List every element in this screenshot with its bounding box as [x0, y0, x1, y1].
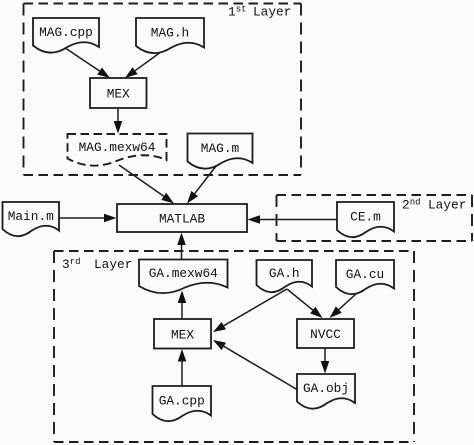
svg-text:GA.cpp: GA.cpp — [159, 394, 205, 409]
svg-text:MATLAB: MATLAB — [159, 212, 205, 227]
svg-text:3rdLayer: 3rdLayer — [62, 257, 132, 272]
document Main.m — [3, 202, 60, 236]
arrow MAG.mexw64 to MATLAB — [119, 165, 174, 204]
svg-text:MAG.mexw64: MAG.mexw64 — [79, 140, 156, 155]
document GA.cu — [336, 260, 394, 294]
svg-text:GA.cu: GA.cu — [346, 267, 384, 282]
process box MEX (layer 1) — [90, 78, 147, 108]
arrow GA.mexw64 to MATLAB — [177, 233, 186, 260]
svg-text:1stLayer: 1stLayer — [228, 5, 291, 20]
svg-text:MAG.cpp: MAG.cpp — [39, 25, 93, 40]
dashed border box 3rd Layer — [54, 251, 414, 442]
svg-text:CE.m: CE.m — [350, 210, 381, 225]
dashed border box 1st Layer — [24, 4, 302, 176]
svg-text:Main.m: Main.m — [8, 209, 54, 224]
document MAG.cpp — [33, 18, 99, 53]
svg-text:NVCC: NVCC — [310, 327, 341, 342]
svg-text:2ndLayer: 2ndLayer — [402, 198, 466, 213]
document MAG.m — [188, 134, 253, 169]
arrow CE.m to MATLAB — [248, 215, 338, 224]
process box MEX (layer 3) — [154, 319, 211, 349]
svg-text:MAG.m: MAG.m — [201, 141, 240, 156]
arrow MEX to GA.mexw64 — [178, 291, 187, 319]
svg-text:GA.obj: GA.obj — [303, 381, 349, 396]
svg-text:MAG.h: MAG.h — [151, 26, 189, 41]
svg-text:MEX: MEX — [107, 87, 130, 102]
svg-text:GA.h: GA.h — [269, 266, 300, 281]
arrow GA.cu to NVCC — [330, 294, 357, 318]
arrow MAG.m to MATLAB — [187, 166, 217, 204]
svg-text:MEX: MEX — [171, 327, 194, 342]
document GA.cpp — [153, 386, 212, 421]
document CE.m — [337, 202, 394, 237]
svg-text:GA.mexw64: GA.mexw64 — [149, 266, 218, 281]
arrow GA.cpp to MEX — [178, 349, 187, 386]
document GA.h — [257, 260, 313, 292]
process box MATLAB — [117, 204, 247, 232]
dashed border box 2nd Layer — [277, 195, 473, 241]
arrow NVCC to GA.obj — [321, 349, 330, 374]
arrow MEX to MAG.mexw64 — [114, 108, 123, 134]
arrow GA.h to MEX — [213, 289, 287, 332]
arrow GA.obj to MEX — [213, 340, 297, 390]
document MAG.h — [136, 18, 204, 53]
document GA.mexw64 — [139, 260, 228, 294]
arrow Main.m to MATLAB — [59, 214, 117, 223]
document GA.obj — [297, 374, 355, 409]
document MAG.mexw64 (dashed) — [68, 134, 167, 166]
process box NVCC — [297, 319, 354, 348]
arrow MAG.h to MEX — [125, 53, 160, 78]
arrow GA.h to NVCC — [287, 289, 323, 318]
arrow MAG.cpp to MEX — [66, 49, 110, 79]
